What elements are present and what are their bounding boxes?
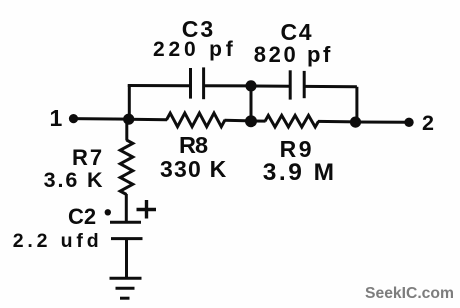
ground bar 1 [110,277,142,280]
resistor R8 zigzag [167,113,226,127]
wire: node A to R8 [129,118,167,122]
value 330 K [160,158,227,181]
value 2.2 ufd [13,232,103,252]
capacitor C2 bottom plate [111,237,143,240]
resistor R7 zigzag [120,140,133,195]
ground bar 2 [116,287,135,290]
value 220 pf [153,39,237,60]
capacitor C4 right plate [303,71,306,98]
C2 plus sign [137,200,157,219]
value 820 pf [254,44,333,66]
wire: R8 to node B [225,119,252,123]
terminal label 2 [422,113,434,135]
label C4 [281,21,314,44]
wire: C2 to ground [125,239,128,278]
wire: node C to terminal 2 [356,121,410,124]
wire: node B to R9 [251,120,266,123]
wire: C4 to right corner [304,85,357,88]
wire: terminal 1 to node A [73,117,130,121]
capacitor C3 right plate [202,67,205,99]
label C2 [68,206,96,228]
terminal 2 dot [404,118,413,127]
wire: node D to C4 [251,85,290,88]
ground bar 3 [120,297,130,300]
label R7 [72,147,104,169]
capacitor C4 left plate [289,70,292,99]
wire: right down riser to node C [355,87,358,122]
terminal 1 dot [69,114,78,123]
value 3.9 M [263,161,337,186]
C2 polarity bullet [105,209,111,215]
terminal label 1 [50,107,63,130]
wire: R9 to node C [318,120,356,124]
value 3.6 K [44,170,105,192]
capacitor C2 top plate [110,221,141,224]
wire: R7 to capacitor C2 [125,194,128,221]
wire: C3 to node D [204,84,251,87]
capacitor C3 left plate [189,68,192,99]
label R8 [179,134,207,158]
wire: top left to C3 [128,84,191,87]
wire: node D down riser to node B [250,86,253,121]
wire: node A down to R7 [125,119,128,140]
watermark SeekIC.com [365,286,454,302]
resistor R9 zigzag [265,115,319,127]
wire: node A up riser [128,84,131,119]
node D junction dot (top) [245,80,256,91]
node A junction dot [123,114,134,125]
node C junction dot [350,117,361,128]
label C3 [182,18,215,41]
label R9 [280,138,314,161]
node B junction dot [245,115,257,127]
